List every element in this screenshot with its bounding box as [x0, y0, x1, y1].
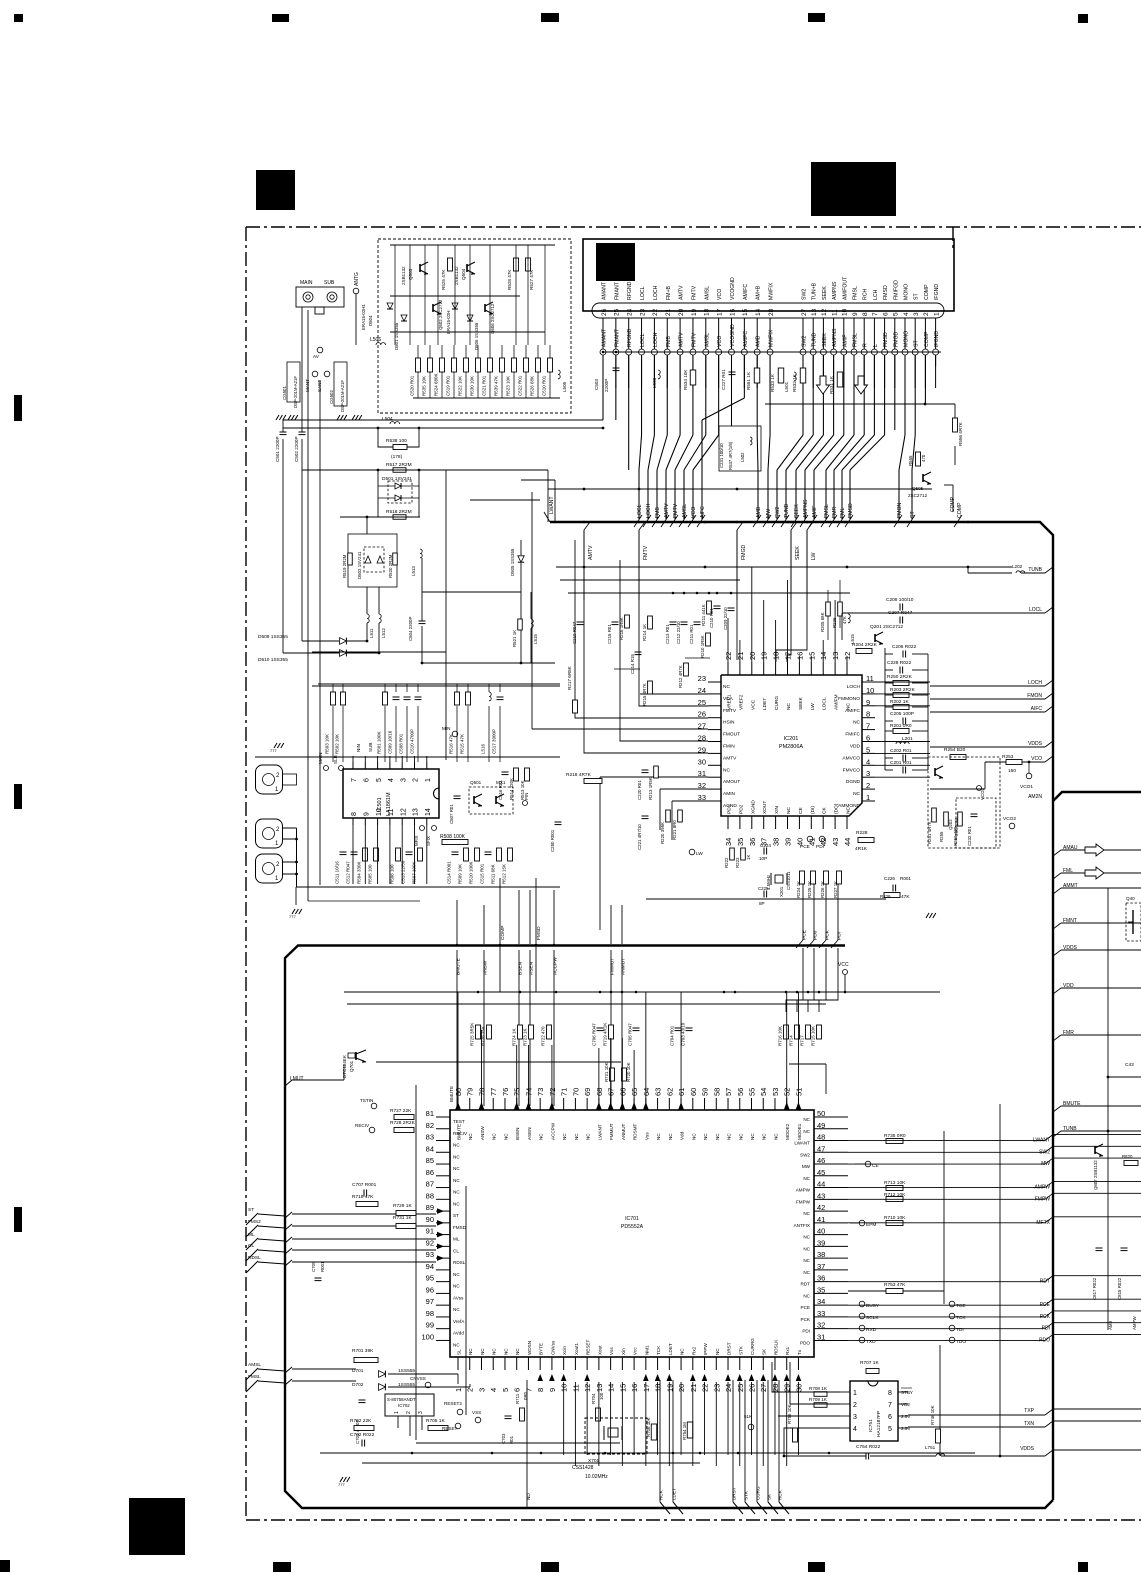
wire mids up ACCPW — [553, 890, 555, 944]
svg-text:C510 R01: C510 R01 — [542, 375, 547, 396]
svg-text:MODE2: MODE2 — [785, 1123, 790, 1140]
wire VDDS exit — [930, 746, 1045, 748]
svg-text:LW: LW — [696, 851, 703, 857]
svg-text:IC702: IC702 — [398, 1403, 410, 1408]
svg-text:Q503: Q503 — [408, 268, 413, 280]
resistor R725 3R5K — [476, 1025, 481, 1039]
svg-text:FMSD: FMSD — [883, 332, 889, 347]
IC701 pin 88 NC — [436, 1198, 450, 1200]
svg-text:SEEK: SEEK — [822, 333, 828, 347]
wire main vertical 2 — [301, 307, 303, 432]
wire right comp — [875, 682, 885, 684]
IC701 pin 52 — [786, 1098, 788, 1110]
svg-text:DSP-201M-A21F: DSP-201M-A21F — [340, 380, 345, 412]
svg-text:7: 7 — [524, 1388, 533, 1392]
svg-text:NC: NC — [846, 807, 852, 814]
wire right comp — [875, 706, 885, 708]
wire FMIN run — [620, 560, 708, 741]
svg-text:13: 13 — [413, 808, 420, 816]
svg-text:5: 5 — [866, 745, 870, 754]
lower board outline — [285, 946, 1053, 1509]
resistor R721 10K — [610, 1068, 615, 1081]
jack tab — [283, 774, 297, 785]
svg-text:R556 4R7K: R556 4R7K — [958, 421, 963, 446]
IC701 pin 90 FMSD — [436, 1222, 450, 1224]
svg-text:R218 4R7K: R218 4R7K — [566, 772, 592, 778]
svg-text:SCLK: SCLK — [866, 1315, 879, 1321]
wire IC701 left trunk — [415, 1085, 417, 1440]
IC701 pin 21 — [692, 1357, 694, 1370]
svg-text:ML: ML — [453, 1237, 460, 1242]
wire IC701 bottom feed — [727, 1382, 729, 1455]
svg-text:VCO1: VCO1 — [1020, 784, 1033, 790]
svg-text:D502 1SV241: D502 1SV241 — [357, 551, 362, 579]
node TXD — [859, 1337, 865, 1343]
svg-text:SUB: SUB — [368, 743, 373, 752]
resistor R723 1K — [529, 1025, 534, 1039]
svg-text:C232 R01: C232 R01 — [967, 826, 972, 846]
svg-text:C504 2200P: C504 2200P — [408, 617, 413, 641]
wire rail y517 — [340, 516, 420, 518]
IC701 pin 41 ANTFIX — [814, 1222, 848, 1224]
svg-text:FMGD: FMGD — [893, 331, 899, 347]
svg-text:R718 47K: R718 47K — [352, 1194, 374, 1200]
wire Q701 row — [376, 1061, 621, 1063]
wire connector column — [833, 355, 835, 435]
IC701 pin 70 — [574, 1098, 576, 1110]
wire STBY up — [880, 1368, 912, 1388]
IC701 pin 49 NC — [814, 1128, 848, 1130]
IC701 pin 17 — [645, 1357, 647, 1370]
svg-text:FMIFGD: FMIFGD — [893, 280, 899, 300]
svg-text:NC: NC — [453, 1178, 460, 1183]
svg-text:10: 10 — [376, 808, 383, 816]
IC201 pin 41 (DI) — [810, 816, 812, 829]
node MIN — [452, 731, 458, 737]
svg-text:16: 16 — [729, 308, 736, 316]
node RECIV — [369, 1127, 375, 1133]
svg-text:91: 91 — [426, 1227, 434, 1236]
svg-text:2200P: 2200P — [604, 379, 609, 392]
wire D510 row — [312, 685, 560, 687]
wire RCK bottom exit — [778, 1380, 780, 1502]
svg-text:RECIV: RECIV — [453, 1131, 468, 1136]
svg-text:70: 70 — [571, 1088, 580, 1096]
svg-text:6: 6 — [513, 1388, 522, 1392]
junction arrow — [725, 1374, 731, 1381]
svg-text:17: 17 — [642, 1384, 651, 1392]
svg-text:TEST: TEST — [453, 1119, 465, 1124]
wire IC501 bottom pin — [426, 825, 428, 884]
svg-text:3: 3 — [400, 778, 407, 782]
svg-text:AMTV: AMTV — [664, 503, 670, 518]
svg-text:TUNB: TUNB — [1028, 567, 1042, 573]
wire antenna vertical — [437, 245, 439, 345]
svg-text:LOCH: LOCH — [646, 503, 652, 518]
svg-text:42: 42 — [817, 1203, 825, 1212]
wire FMON exit — [930, 698, 1045, 700]
svg-text:FMS2: FMS2 — [248, 1219, 261, 1225]
registration mark left 3 — [14, 1207, 22, 1232]
svg-text:ANSW: ANSW — [482, 960, 488, 975]
svg-text:NC: NC — [492, 1133, 497, 1140]
junction arrow — [643, 1374, 649, 1381]
IC701 pin 8 — [539, 1357, 541, 1370]
IC201 pin 38 XIN — [775, 816, 777, 829]
wire PCE bank — [819, 948, 838, 1012]
node 51K — [748, 1424, 754, 1430]
wire connector column — [924, 355, 926, 404]
svg-text:C514 R001: C514 R001 — [447, 861, 452, 884]
svg-text:PDO: PDO — [800, 1340, 810, 1345]
svg-text:Q40: Q40 — [1126, 896, 1135, 901]
svg-text:C510 4700P: C510 4700P — [410, 729, 415, 754]
svg-text:C815 R022: C815 R022 — [1117, 1277, 1122, 1300]
capacitor C706 R047 — [597, 1027, 604, 1029]
resistor R539 47K — [500, 358, 505, 372]
svg-text:56: 56 — [736, 1088, 745, 1096]
wire lower bottom rail — [320, 1452, 975, 1454]
wire IC201 top pin — [787, 580, 789, 662]
svg-text:PCE: PCE — [801, 1305, 810, 1310]
diode D506 1SS355 — [467, 315, 473, 321]
svg-text:Q201 2SC2712: Q201 2SC2712 — [870, 624, 903, 630]
svg-text:Xcin: Xcin — [562, 1346, 567, 1355]
svg-text:R702 22K: R702 22K — [350, 1418, 372, 1424]
svg-text:AM8: AM8 — [1108, 1320, 1113, 1330]
svg-text:R515 47K: R515 47K — [460, 734, 465, 754]
svg-text:CNVSS: CNVSS — [410, 1376, 426, 1381]
wire lbank bottom rail — [685, 657, 710, 659]
svg-text:Q701: Q701 — [349, 1060, 354, 1072]
svg-text:RXD: RXD — [866, 1327, 877, 1333]
wire connector column — [666, 355, 668, 435]
IC701 pin 53 — [774, 1098, 776, 1110]
transistor Q807 2SB1132 — [1094, 1146, 1096, 1154]
svg-text:SW2: SW2 — [800, 1152, 810, 1157]
wire connector column — [873, 355, 875, 435]
wire IC201 top pin — [834, 600, 836, 662]
svg-text:L: L — [873, 344, 879, 347]
node EPM — [859, 1220, 865, 1226]
wire IC701 bottom feed — [751, 1382, 753, 1455]
svg-text:23: 23 — [698, 674, 706, 683]
svg-text:R254 B20: R254 B20 — [944, 747, 966, 753]
junction arrow — [737, 1374, 743, 1381]
wire antenna vertical — [424, 245, 426, 345]
svg-text:47K: 47K — [901, 894, 910, 900]
svg-text:TUNB: TUNB — [812, 332, 818, 347]
resistor R502 10K — [341, 692, 346, 705]
resistor R720 10K — [622, 1068, 627, 1081]
wire PD0 to edge — [813, 884, 815, 940]
svg-text:VCC: VCC — [750, 699, 756, 710]
svg-text:DTC114EK: DTC114EK — [342, 1054, 347, 1078]
junction arrow — [749, 1374, 755, 1381]
crystal X201 CSS1011 — [775, 875, 783, 883]
svg-text:R205 68K: R205 68K — [820, 612, 825, 632]
IC701 pin 77 — [492, 1098, 494, 1110]
svg-text:NC: NC — [453, 1154, 460, 1159]
svg-text:4: 4 — [866, 757, 870, 766]
svg-text:SK: SK — [766, 1493, 771, 1500]
IC701 pin 29 — [786, 1357, 788, 1370]
IC701 pin 12 — [586, 1357, 588, 1370]
svg-text:7: 7 — [866, 722, 870, 731]
svg-text:R225 1K: R225 1K — [807, 881, 812, 898]
wire vcc rail — [344, 991, 940, 993]
svg-text:C215 R01: C215 R01 — [607, 624, 612, 644]
svg-text:R729 1K: R729 1K — [393, 1203, 412, 1209]
wire resistor top — [453, 345, 455, 358]
wire lbank rail y593 — [568, 592, 850, 594]
wire rail TUNB upper — [556, 566, 1012, 568]
wire IC201 right pin — [875, 693, 930, 695]
IC201 pin 1 AMMOND — [862, 800, 875, 802]
svg-text:NC: NC — [691, 1133, 696, 1140]
node VCO2 — [1009, 823, 1015, 829]
resistor R205 68K — [826, 602, 831, 616]
svg-text:ANMUT: ANMUT — [620, 958, 626, 975]
registration mark bottom right — [1078, 1562, 1088, 1572]
svg-text:AIFC: AIFC — [700, 506, 706, 518]
IC701 pin 72 — [551, 1098, 553, 1110]
svg-text:94: 94 — [426, 1262, 434, 1271]
svg-text:28: 28 — [698, 734, 706, 743]
node SFIX — [432, 826, 437, 831]
IC201 pin 26 HSIN — [708, 717, 721, 719]
registration mark bottom 3 — [541, 1562, 559, 1572]
signal arrow LCH — [855, 376, 868, 394]
svg-text:R725 3R5K: R725 3R5K — [469, 1023, 474, 1046]
svg-text:COMP: COMP — [500, 926, 506, 940]
svg-text:CNVss: CNVss — [550, 1340, 555, 1355]
wire connector column — [692, 355, 694, 435]
capacitor C512 R047 — [351, 851, 358, 853]
svg-text:2SC2712: 2SC2712 — [908, 493, 928, 498]
node SLB — [339, 766, 344, 771]
IC701 pin 6 — [516, 1357, 518, 1370]
svg-text:R213 1R5K: R213 1R5K — [648, 777, 653, 800]
svg-text:NC: NC — [803, 1235, 810, 1240]
svg-text:9: 9 — [852, 312, 859, 316]
IC701 pin 78 — [480, 1098, 482, 1110]
wire to bus LWANT — [380, 469, 548, 471]
svg-text:14: 14 — [607, 1384, 616, 1392]
wire connector column — [935, 355, 937, 366]
svg-text:ST: ST — [453, 1213, 459, 1218]
svg-text:NC: NC — [668, 1133, 673, 1140]
IC701 pin 71 — [563, 1098, 565, 1110]
registration mark top 2 — [272, 14, 289, 22]
svg-text:11: 11 — [831, 309, 838, 316]
svg-text:AMTV: AMTV — [679, 332, 685, 347]
resistor R756 10K — [793, 1428, 798, 1442]
svg-text:Q504: Q504 — [461, 268, 466, 280]
capacitor C209 22/10 — [728, 607, 735, 609]
wire mids up ANSW — [483, 905, 485, 944]
registration mark top right — [1078, 14, 1088, 23]
node RESET2 — [457, 1409, 463, 1415]
junction arrow — [561, 1374, 567, 1381]
svg-text:32: 32 — [817, 1321, 825, 1330]
alignment rect upper-right — [811, 162, 896, 216]
capacitor C215 R01 — [612, 621, 619, 623]
wire IC201 top pin — [763, 600, 765, 662]
svg-text:L506: L506 — [370, 337, 381, 343]
svg-text:D509 1SS355: D509 1SS355 — [258, 634, 288, 640]
resistor R215 4R7K — [648, 681, 653, 694]
svg-text:2: 2 — [406, 1411, 412, 1414]
resistor R722 470 — [547, 1025, 552, 1039]
op-amp IC701 PD5552A — [450, 1110, 814, 1357]
svg-text:777: 777 — [338, 1482, 345, 1487]
svg-text:BUSY: BUSY — [866, 1303, 880, 1309]
wire antenna rail — [283, 419, 560, 421]
svg-text:NC: NC — [786, 807, 792, 814]
wire SEEK drop — [787, 530, 791, 662]
diode D509 1SS355 — [340, 638, 347, 645]
svg-text:5: 5 — [376, 778, 383, 782]
IC701 pin 86 NC — [436, 1175, 450, 1177]
svg-text:NC: NC — [453, 1143, 460, 1148]
svg-text:NC: NC — [453, 1166, 460, 1171]
svg-text:WDSN: WDSN — [527, 1341, 532, 1355]
svg-text:25: 25 — [736, 1384, 745, 1392]
svg-text:VCO: VCO — [717, 289, 723, 300]
IC201 pin 28 FMIN — [708, 741, 721, 743]
resistor R211 441K — [707, 601, 712, 614]
svg-text:48: 48 — [817, 1133, 825, 1142]
capacitor C511 10/16 — [340, 851, 347, 853]
wire R707 loop — [843, 1371, 852, 1392]
junction dots — [602, 351, 605, 354]
svg-text:MONO: MONO — [904, 331, 910, 347]
svg-text:LCH: LCH — [873, 289, 879, 300]
IC701 pin 62 — [668, 1098, 670, 1110]
svg-text:R707 1K: R707 1K — [860, 1360, 879, 1366]
svg-text:8: 8 — [862, 312, 869, 316]
wire IC201 top pin — [727, 618, 729, 662]
svg-text:15: 15 — [742, 308, 749, 316]
svg-text:FMTV: FMTV — [691, 285, 697, 300]
svg-text:R217 6R8K: R217 6R8K — [567, 665, 572, 690]
svg-text:R539 47K: R539 47K — [494, 376, 499, 396]
IC701 pin 93 RDSL — [436, 1257, 450, 1259]
svg-text:AMSL: AMSL — [248, 1362, 261, 1368]
svg-text:78: 78 — [477, 1088, 486, 1096]
IC201 pin 11 LOCH — [862, 681, 875, 683]
svg-text:FMSL: FMSL — [248, 1374, 261, 1380]
varicap box C231 R537 L502 — [719, 426, 761, 471]
svg-text:AVss: AVss — [453, 1295, 464, 1300]
svg-text:27: 27 — [698, 722, 706, 731]
wire connector column — [904, 355, 906, 435]
svg-text:XOUT: XOUT — [762, 801, 768, 814]
svg-text:65: 65 — [630, 1088, 639, 1096]
svg-text:8: 8 — [888, 1390, 892, 1397]
capacitor C509 10/16 — [393, 696, 400, 698]
wire IC501 top pin — [389, 756, 391, 762]
svg-text:17: 17 — [716, 308, 723, 316]
svg-text:4: 4 — [388, 778, 395, 782]
svg-text:C205 100P: C205 100P — [890, 711, 914, 717]
svg-text:R251 4R7K: R251 4R7K — [927, 821, 932, 844]
svg-text:C519 R01: C519 R01 — [446, 375, 451, 396]
svg-text:L513: L513 — [411, 566, 416, 576]
svg-text:FMMUT: FMMUT — [609, 1123, 614, 1140]
svg-text:777: 777 — [289, 914, 296, 919]
resistor R522 10K — [464, 358, 469, 372]
IC701 pin 13 — [598, 1357, 600, 1370]
svg-text:PD5552A: PD5552A — [621, 1224, 644, 1230]
svg-text:AM2N: AM2N — [1028, 794, 1042, 800]
IC701 pin 82 RECIV — [436, 1128, 450, 1130]
wire stub — [574, 1092, 576, 1098]
junction arrow left — [437, 1244, 444, 1250]
svg-text:NC: NC — [723, 684, 730, 690]
svg-text:NC: NC — [656, 1133, 661, 1140]
inductor L202 — [1016, 571, 1025, 573]
IC701 pin 11 — [574, 1357, 576, 1370]
svg-text:44: 44 — [843, 838, 852, 846]
IC701 pin 58 — [715, 1098, 717, 1110]
svg-text:3: 3 — [477, 1388, 486, 1392]
svg-text:C706 R047: C706 R047 — [591, 1023, 596, 1046]
connector MANT — [312, 371, 318, 377]
wire xtal rail — [646, 898, 886, 900]
wire IC701 top feed — [527, 1045, 529, 1104]
svg-text:TDI: TDI — [956, 1327, 964, 1333]
svg-text:C509 10/16: C509 10/16 — [388, 730, 393, 754]
svg-text:PCK: PCK — [801, 1317, 811, 1322]
svg-text:AMB: AMB — [756, 506, 762, 518]
svg-text:DGND: DGND — [846, 779, 861, 785]
wire antenna bottom rail — [413, 397, 560, 399]
IC701 pin 97 NC — [436, 1304, 450, 1306]
IC701 pin 10 — [563, 1357, 565, 1370]
svg-text:60: 60 — [689, 1088, 698, 1096]
svg-text:PD0: PD0 — [812, 930, 818, 940]
svg-text:PCE: PCE — [800, 844, 810, 850]
svg-text:R001: R001 — [320, 1261, 325, 1272]
svg-text:R534 10K: R534 10K — [683, 369, 688, 390]
svg-text:LOCL: LOCL — [640, 333, 646, 347]
svg-text:3: 3 — [866, 769, 870, 778]
capacitor C522 R01 — [524, 358, 529, 372]
IC201 pin 23 NC — [708, 681, 721, 683]
svg-text:C817 R022: C817 R022 — [1092, 1277, 1097, 1300]
svg-text:10: 10 — [866, 686, 874, 695]
svg-text:7: 7 — [888, 1402, 892, 1409]
wire IC501 bottom pin — [364, 825, 366, 884]
svg-text:77: 77 — [489, 1088, 498, 1096]
svg-text:AMTV: AMTV — [588, 545, 594, 560]
alignment square bottom-left — [129, 1498, 185, 1555]
capacitor C502 2200P — [299, 431, 306, 433]
svg-text:L751: L751 — [925, 1445, 936, 1450]
svg-text:11: 11 — [388, 809, 395, 816]
junction arrow — [549, 1374, 555, 1381]
IC201 pin 7 FMIFC — [862, 729, 875, 731]
wire IC501 top pin — [352, 756, 354, 762]
wire connector column — [884, 355, 886, 435]
junction arrow — [784, 1374, 790, 1381]
svg-text:ANMUT: ANMUT — [621, 1123, 626, 1140]
wire connector column — [679, 355, 681, 435]
svg-text:C210 R01: C210 R01 — [709, 608, 714, 628]
svg-text:C513 22/50: C513 22/50 — [401, 860, 406, 884]
